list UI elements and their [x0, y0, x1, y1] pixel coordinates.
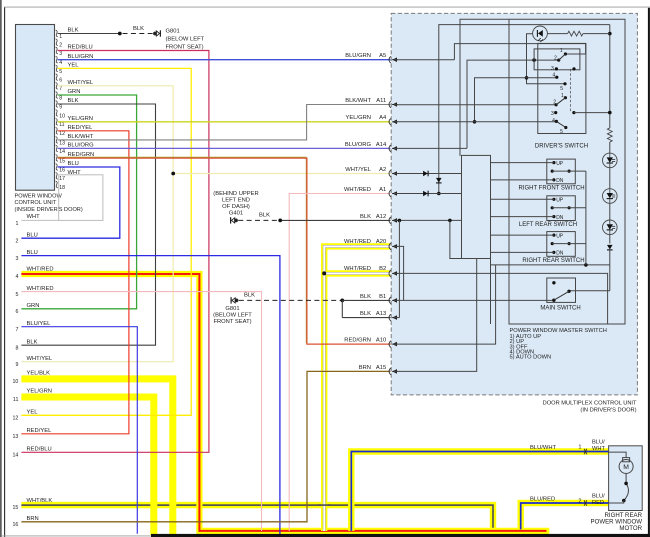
- motor pin marks: [584, 449, 587, 506]
- page border left inner line: [4, 7, 6, 537]
- right page black border: [648, 8, 650, 537]
- svg-text:BLK/WHT: BLK/WHT: [345, 98, 371, 104]
- wire BLU/YEL: lower pin 7 down to black bus: [21, 327, 137, 534]
- caption DOOR MULTIPLEX CONTROL UNIT: [543, 400, 637, 413]
- ground symbol G801 (below left front seat): [153, 30, 160, 36]
- page border bottom line: [2, 535, 650, 537]
- internal wire B1 to main switch: [394, 299, 554, 301]
- internal wire A2 with diode: [394, 173, 462, 175]
- wire YEL/BLK thick: lower pin 10 down to black bus: [21, 379, 172, 535]
- svg-text:BLU/RED: BLU/RED: [530, 497, 555, 503]
- RIGHT REAR SWITCH feed wires from bus: [491, 234, 554, 236]
- driver switch contact dots (upper pole): [564, 52, 567, 55]
- svg-text:16: 16: [59, 167, 65, 173]
- svg-text:5: 5: [59, 69, 62, 75]
- wire WHT: lower pin 1 stub: [21, 219, 58, 221]
- LED indicator 3: [603, 220, 618, 235]
- wire BLK: pin 9 to lower pin 8: [21, 104, 155, 345]
- lower harness wire name labels: [27, 214, 54, 522]
- svg-text:13: 13: [12, 434, 18, 440]
- driver switch auto-up sub box: [534, 49, 580, 70]
- resistor (horizontal) beside lamp: [547, 33, 567, 35]
- svg-text:G401: G401: [229, 211, 243, 217]
- LED rail vertical with junction: [609, 25, 611, 128]
- power window control unit connector (18-pin, light blue box): [16, 25, 55, 191]
- svg-text:MOTOR: MOTOR: [619, 525, 642, 532]
- LEFT REAR SWITCH UP/DN contacts: [552, 198, 555, 201]
- svg-text:1: 1: [15, 221, 18, 227]
- svg-text:1: 1: [59, 34, 62, 40]
- wire BLU/WHT thick: motor pin 1: [351, 452, 608, 531]
- internal wire B2 to right riser: [394, 273, 608, 324]
- svg-text:3: 3: [15, 256, 18, 262]
- svg-text:BLK: BLK: [360, 311, 371, 317]
- wire BRN: lower pin 16 to A15: [21, 371, 390, 521]
- svg-text:BLU/WHT: BLU/WHT: [530, 445, 557, 451]
- svg-text:9: 9: [59, 104, 62, 110]
- svg-text:YEL/GRN: YEL/GRN: [346, 115, 371, 121]
- svg-text:5: 5: [560, 86, 563, 92]
- svg-text:BLU/ORG: BLU/ORG: [345, 142, 372, 148]
- internal wire A4: [394, 121, 556, 123]
- wire GRN: pin 8 to lower pin 6: [21, 95, 136, 309]
- svg-text:BLU: BLU: [68, 161, 79, 167]
- wire BLK A12 to ground G401: [280, 219, 390, 221]
- svg-text:DRIVER'S SWITCH: DRIVER'S SWITCH: [535, 143, 588, 149]
- svg-text:WHT: WHT: [592, 446, 605, 452]
- internal wire A12 with branches: [394, 219, 462, 221]
- unit pin sockets and input arrows (A5..A15): [389, 56, 391, 375]
- svg-text:A2: A2: [379, 167, 386, 173]
- power window master switch caption block: [510, 328, 607, 361]
- svg-text:B1: B1: [379, 294, 386, 300]
- svg-text:RIGHT FRONT SWITCH: RIGHT FRONT SWITCH: [518, 185, 584, 191]
- svg-text:12: 12: [12, 416, 18, 422]
- driver switch wiper arm (upper): [559, 54, 566, 60]
- black bus bar along bottom: [151, 534, 650, 537]
- wire name labels for pins 1-18: [68, 28, 95, 176]
- svg-text:(INSIDE DRIVER'S DOOR): (INSIDE DRIVER'S DOOR): [15, 207, 83, 213]
- driver switch contact numbers (upper pole): [551, 48, 563, 92]
- motor brush rectangle: [623, 458, 630, 462]
- RIGHT REAR SWITCH box: [547, 232, 576, 257]
- svg-text:2: 2: [59, 43, 62, 49]
- svg-text:(BELOW LEFT: (BELOW LEFT: [166, 36, 205, 42]
- svg-text:4: 4: [553, 73, 556, 79]
- wire WHT/RED pale: lower pin 5 down to bottom bus: [21, 292, 261, 531]
- svg-text:5: 5: [560, 129, 563, 135]
- svg-text:11: 11: [13, 397, 19, 403]
- svg-text:8: 8: [15, 345, 18, 351]
- svg-text:WHT/RED: WHT/RED: [344, 187, 371, 193]
- mechanical link (dashed): [570, 69, 572, 113]
- svg-text:BLK: BLK: [68, 98, 79, 104]
- svg-text:FRONT SEAT): FRONT SEAT): [166, 44, 204, 50]
- caption RIGHT REAR POWER WINDOW MOTOR: [591, 512, 643, 532]
- wire BLU: lower pin 3 down to bottom: [21, 256, 280, 535]
- svg-text:4: 4: [59, 60, 62, 66]
- wire RED/GRN: pin 15 to A10: [58, 157, 307, 343]
- svg-text:9: 9: [15, 362, 18, 368]
- diode below LED rail: [607, 245, 613, 250]
- svg-text:A11: A11: [376, 98, 386, 104]
- svg-text:16: 16: [12, 522, 18, 528]
- svg-text:YEL: YEL: [68, 63, 80, 69]
- svg-text:RED/GRN: RED/GRN: [344, 338, 371, 344]
- svg-text:UP: UP: [556, 198, 564, 204]
- svg-text:G801: G801: [166, 28, 180, 34]
- svg-text:1: 1: [560, 48, 563, 54]
- LEFT REAR SWITCH box: [547, 196, 576, 221]
- unit pin wire-name and pin-id labels: [344, 53, 387, 371]
- svg-text:2: 2: [578, 499, 581, 505]
- svg-text:BLK: BLK: [360, 214, 371, 220]
- svg-text:4: 4: [552, 118, 555, 124]
- illumination lamp (driver switch light): [533, 26, 548, 42]
- svg-text:CONTROL UNIT: CONTROL UNIT: [15, 200, 57, 206]
- svg-text:10: 10: [59, 113, 65, 119]
- internal wire A13: [394, 317, 399, 319]
- svg-text:(IN DRIVER'S DOOR): (IN DRIVER'S DOOR): [580, 408, 636, 414]
- svg-text:14: 14: [59, 149, 65, 155]
- ground G801 caption: [166, 28, 205, 50]
- svg-text:WHT/RED: WHT/RED: [344, 266, 371, 272]
- svg-text:A15: A15: [376, 365, 386, 371]
- svg-text:RED/YEL: RED/YEL: [68, 125, 94, 131]
- svg-text:3: 3: [551, 66, 554, 72]
- svg-text:UP: UP: [556, 233, 564, 239]
- wire from LED rail to main switch arm: [569, 290, 610, 292]
- LEFT REAR SWITCH common wire: [569, 207, 586, 209]
- svg-text:BLU/ORG: BLU/ORG: [68, 143, 95, 149]
- wire BLU/RED thick: motor pin 2: [521, 503, 609, 529]
- svg-text:4: 4: [15, 274, 18, 280]
- svg-text:WHT/RED: WHT/RED: [344, 239, 371, 245]
- resistor (vertical) on LED rail: [607, 128, 612, 142]
- RIGHT FRONT SWITCH box: [547, 159, 576, 184]
- wire WHT/RED pale: A1 down to bottom bus: [289, 194, 390, 532]
- wire YEL: pin 5 to lower pin 12: [21, 68, 191, 415]
- svg-text:A1: A1: [379, 187, 386, 193]
- wire A5 riser to driver switch contact 1: [454, 44, 585, 60]
- svg-text:14: 14: [12, 453, 18, 459]
- wire WHT/RED thick feed: lower pin 4 to bottom bus (yellow band, red core): [21, 274, 549, 531]
- svg-text:DOOR MULTIPLEX CONTROL UNIT: DOOR MULTIPLEX CONTROL UNIT: [543, 400, 637, 406]
- wire from top bus to illumination/LED rail: [439, 25, 610, 195]
- wire WHT/RED thick to A20/B2 (yellow band, white core): [324, 246, 390, 531]
- wire WHT/YEL: pin 7 to lower pin 9 and A2: [21, 86, 173, 362]
- svg-text:LEFT END: LEFT END: [222, 198, 250, 204]
- svg-text:POWER WINDOW: POWER WINDOW: [15, 193, 63, 199]
- wire RED/YEL: pin 12 to lower pin 13: [21, 131, 128, 434]
- svg-text:BLK/WHT: BLK/WHT: [68, 134, 94, 140]
- wire BLK/WHT: pin 13 to A11: [58, 105, 391, 140]
- svg-text:A20: A20: [376, 239, 386, 245]
- lamp left feed wire: [527, 34, 566, 84]
- svg-text:18: 18: [59, 185, 65, 191]
- wire WHT: pin 17 to lower pin 1 (white wire outline): [59, 175, 103, 221]
- wire BLU/ORG: pin 14 to A14: [58, 147, 391, 149]
- svg-text:RIGHT REAR SWITCH: RIGHT REAR SWITCH: [522, 258, 584, 264]
- RIGHT REAR SWITCH UP/DN contacts: [552, 234, 555, 237]
- svg-text:17: 17: [59, 176, 65, 182]
- wire BLU: pin 16 to lower pin 2: [21, 167, 119, 238]
- LEFT REAR SWITCH feed wires from bus: [491, 198, 554, 200]
- power window control unit caption: [15, 193, 83, 213]
- power bus loop around master switch assembly: [460, 19, 625, 324]
- svg-text:2: 2: [15, 238, 18, 244]
- svg-text:BLU/GRN: BLU/GRN: [345, 53, 371, 59]
- svg-text:3: 3: [59, 51, 62, 57]
- svg-text:5: 5: [15, 292, 18, 298]
- svg-text:BRN: BRN: [359, 365, 371, 371]
- svg-text:3: 3: [551, 111, 554, 117]
- wire YEL/GRN: pin 11 to A4: [58, 121, 391, 123]
- page border top line: [4, 6, 650, 8]
- bus right edge extension down to power loop: [490, 259, 492, 325]
- svg-text:2: 2: [554, 55, 557, 61]
- svg-text:15: 15: [12, 505, 18, 511]
- svg-text:5) AUTO DOWN: 5) AUTO DOWN: [510, 355, 552, 361]
- ground symbol G401 (behind upper left end of dash): [231, 217, 238, 223]
- junction dot WHT/RED B2 branch: [322, 271, 326, 275]
- RIGHT FRONT SWITCH UP/DN contacts: [552, 161, 555, 164]
- internal wire A5: [394, 59, 454, 61]
- svg-text:BLU/GRN: BLU/GRN: [68, 54, 94, 60]
- svg-text:BLK: BLK: [244, 292, 255, 298]
- svg-text:A10: A10: [376, 338, 386, 344]
- driver switch contact numbers (lower pole): [551, 93, 564, 135]
- svg-text:(BELOW LEFT: (BELOW LEFT: [213, 313, 252, 319]
- svg-text:A4: A4: [379, 115, 387, 121]
- svg-text:UP: UP: [556, 161, 564, 167]
- right rear power window motor box: [609, 446, 643, 511]
- wire BLK pin 1 to ground G801: [58, 33, 120, 35]
- central junction bus rectangle: [462, 155, 491, 258]
- svg-text:1: 1: [561, 93, 564, 99]
- internal wire A11 to lower wiper: [394, 104, 556, 106]
- wire YEL/GRN thick: lower pin 11 down to black bus: [21, 397, 153, 535]
- page border left outer line: [0, 0, 2, 537]
- svg-text:12: 12: [59, 131, 65, 137]
- svg-text:BLK: BLK: [259, 213, 270, 219]
- main switch arm: [554, 291, 569, 300]
- wire WHT/BLK thick: lower pin 15 to bottom bus: [21, 505, 493, 529]
- svg-text:A14: A14: [376, 142, 387, 148]
- LED indicator 1: [603, 153, 618, 168]
- svg-text:WHT: WHT: [27, 214, 41, 220]
- svg-text:A5: A5: [379, 53, 386, 59]
- WHT/BLK core continues over vertical: [318, 504, 331, 506]
- internal wire A10 riser: [394, 265, 496, 344]
- main switch box: [547, 278, 576, 302]
- svg-text:7: 7: [15, 327, 18, 333]
- RIGHT FRONT SWITCH feed wires from bus: [491, 162, 554, 164]
- contact 3 line to LED rail: [574, 112, 610, 114]
- svg-text:6: 6: [15, 309, 18, 315]
- motor M circle: [619, 460, 633, 474]
- svg-text:11: 11: [59, 122, 64, 128]
- switch commons riser: [585, 171, 587, 265]
- svg-text:FRONT SEAT): FRONT SEAT): [213, 319, 251, 325]
- motor feed wire to brush: [609, 452, 627, 458]
- wire BLU/GRN: pin 4 to A5: [58, 59, 391, 61]
- svg-text:BLK: BLK: [133, 26, 144, 32]
- wire BLK B1/A13 to ground G801 (second): [231, 297, 238, 303]
- svg-text:DN: DN: [556, 251, 564, 257]
- driver switch contact dots (lower pole): [564, 96, 567, 99]
- connector pin hooks and numbers (pins 1-18): [56, 30, 58, 188]
- svg-text:RED/BLU: RED/BLU: [68, 45, 93, 51]
- svg-text:WHT/YEL: WHT/YEL: [345, 167, 372, 173]
- LED indicator 2: [603, 189, 618, 204]
- internal wire A14: [394, 147, 467, 149]
- svg-text:10: 10: [12, 379, 18, 385]
- svg-text:A13: A13: [376, 311, 386, 317]
- lower harness pin numbers 1-16: [12, 221, 18, 528]
- svg-text:DN: DN: [556, 178, 564, 184]
- svg-text:BLK: BLK: [360, 294, 371, 300]
- svg-text:BLU/: BLU/: [592, 440, 605, 446]
- wire RED/BLU: pin 3 to lower pin 14: [21, 51, 209, 453]
- svg-text:RED: RED: [592, 500, 604, 506]
- svg-text:WHT/YEL: WHT/YEL: [68, 80, 95, 86]
- ground G401 caption: [213, 191, 258, 217]
- wire A4 riser to driver switch contact 4: [475, 78, 557, 122]
- svg-text:DN: DN: [556, 215, 564, 221]
- driver switch wiper arms (lower): [556, 98, 565, 105]
- svg-text:7: 7: [59, 86, 62, 92]
- svg-text:15: 15: [59, 158, 65, 164]
- svg-text:G801: G801: [225, 306, 239, 312]
- RIGHT FRONT SWITCH common wire: [569, 170, 586, 172]
- svg-text:YEL/GRN: YEL/GRN: [68, 116, 93, 122]
- svg-text:BLU/: BLU/: [592, 494, 605, 500]
- internal wire A20 branch down to B1: [394, 246, 404, 300]
- wire A14 riser to driver switch contact 2: [467, 60, 559, 148]
- second ground G801 caption: [213, 306, 252, 325]
- svg-text:A12: A12: [376, 214, 386, 220]
- svg-text:GRN: GRN: [68, 89, 81, 95]
- svg-text:LEFT REAR SWITCH: LEFT REAR SWITCH: [519, 222, 577, 228]
- svg-text:1: 1: [578, 444, 581, 450]
- driver switch outline box: [538, 43, 586, 133]
- svg-text:OF DASH): OF DASH): [222, 204, 250, 210]
- svg-text:MAIN SWITCH: MAIN SWITCH: [540, 306, 580, 312]
- svg-text:B2: B2: [379, 266, 386, 272]
- svg-text:BLK: BLK: [68, 28, 79, 34]
- svg-text:M: M: [623, 464, 629, 471]
- RIGHT REAR SWITCH common wire: [569, 243, 586, 245]
- svg-text:8: 8: [59, 95, 62, 101]
- common rail to LED rail: [491, 264, 610, 266]
- internal wire A15 riser: [394, 259, 477, 372]
- diode on vertical branch to A1 line: [436, 178, 442, 183]
- svg-text:6: 6: [59, 78, 62, 84]
- svg-text:13: 13: [59, 140, 65, 146]
- door multiplex control unit enclosure (dashed box, light blue): [391, 13, 637, 395]
- motor commutator arc and contacts: [625, 474, 627, 484]
- svg-text:(BEHIND UPPER: (BEHIND UPPER: [213, 191, 258, 197]
- internal wire A1 with diode: [394, 193, 462, 195]
